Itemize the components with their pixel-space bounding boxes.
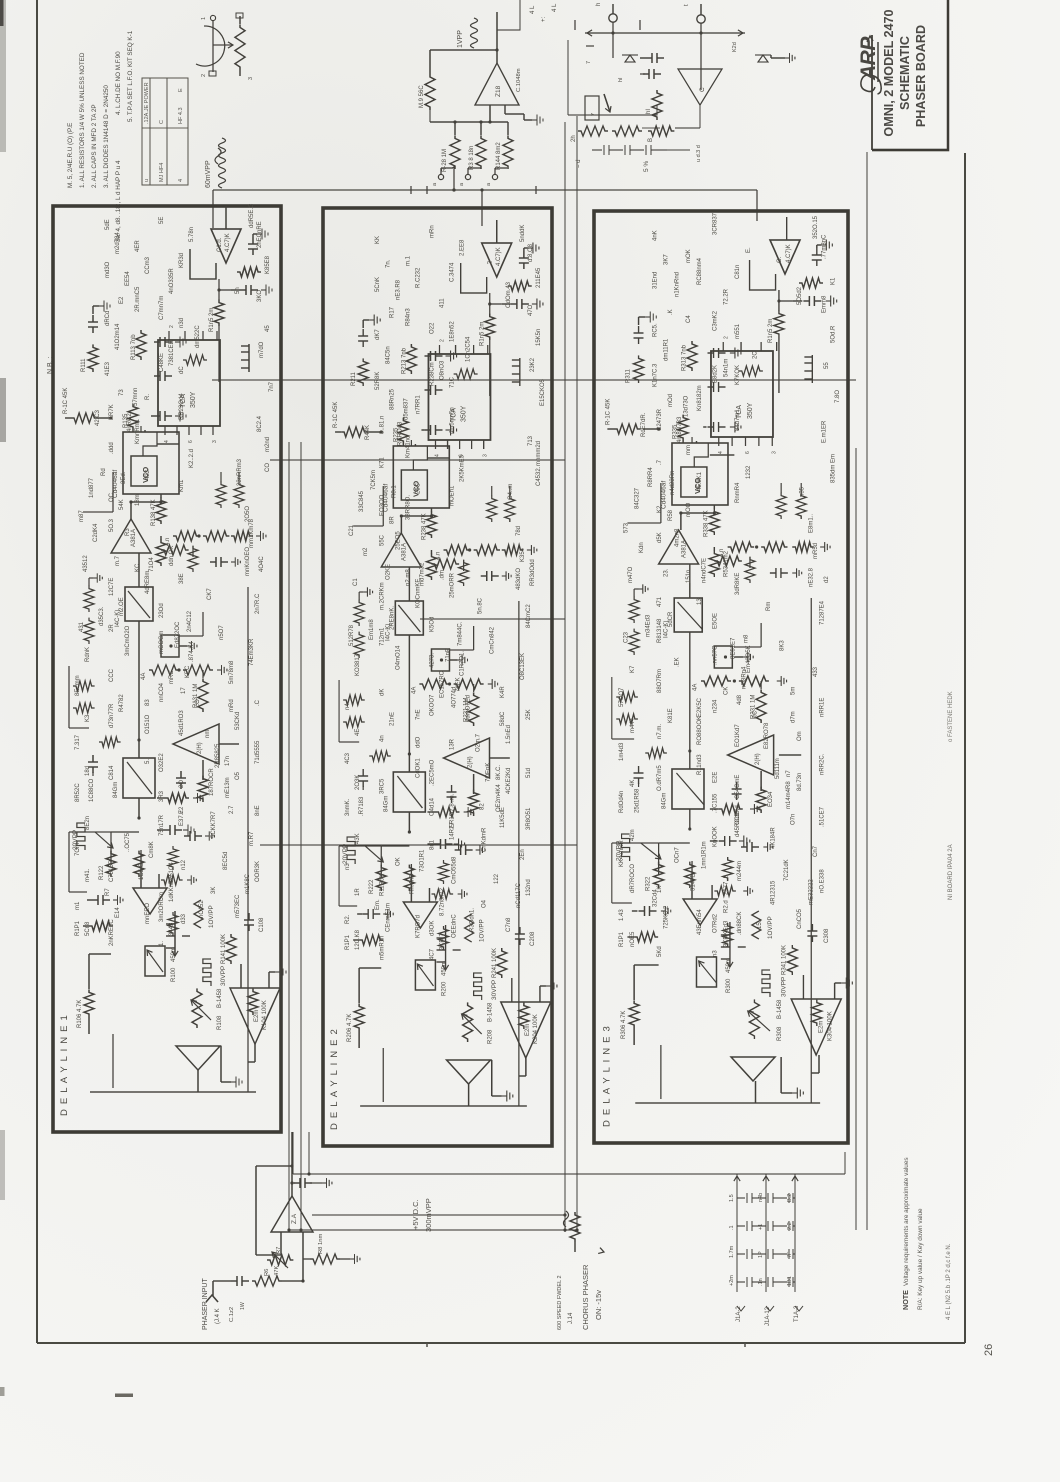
svg-text:75n17R: 75n17R xyxy=(159,814,165,836)
svg-text:42.C3: 42.C3 xyxy=(95,409,101,426)
svg-text:n7: n7 xyxy=(786,770,792,777)
svg-text:n4: n4 xyxy=(345,703,351,710)
svg-text:R1n5 2m: R1n5 2m xyxy=(768,319,774,343)
extra wires net 1 xyxy=(88,954,90,972)
capacitor C312 xyxy=(732,782,742,800)
clock op-amp U102 xyxy=(211,229,241,263)
ground clock 3 xyxy=(826,296,837,307)
svg-text:2n7R.C: 2n7R.C xyxy=(255,593,261,614)
svg-text:8K3: 8K3 xyxy=(779,640,785,651)
svg-text:CCC: CCC xyxy=(109,668,115,682)
cap field e32 xyxy=(770,568,788,578)
op-amp U108 vco buffer xyxy=(111,519,151,553)
clock input wire 2 xyxy=(496,220,498,243)
svg-text:.EK: .EK xyxy=(675,657,681,667)
mixer B stub marks xyxy=(575,20,640,46)
svg-text:OdOm.43: OdOm.43 xyxy=(506,281,512,308)
svg-text:mR5d: mR5d xyxy=(813,543,819,559)
svg-text:RR3dOdd: RR3dOdd xyxy=(530,559,536,586)
resistor field a13 xyxy=(168,846,178,870)
svg-text:Em1m8: Em1m8 xyxy=(369,619,375,640)
svg-text:58dC: 58dC xyxy=(500,711,506,726)
svg-text:4A: 4A xyxy=(141,673,147,680)
svg-text:u d.3 d: u d.3 d xyxy=(696,145,702,162)
svg-text:5CnK: 5CnK xyxy=(375,277,381,292)
resistor R110 xyxy=(71,413,97,423)
resistor R315 clock xyxy=(799,278,823,288)
svg-text:7OEnK: 7OEnK xyxy=(486,763,492,782)
resistor field f11 xyxy=(216,482,226,508)
capacitor C205 xyxy=(362,909,380,919)
svg-text:R113 7nb: R113 7nb xyxy=(131,334,137,360)
svg-text:nnCO4: nnCO4 xyxy=(159,682,165,702)
trimmer R200 xyxy=(415,960,435,990)
svg-text:K7: K7 xyxy=(630,665,636,673)
svg-text:7n7: 7n7 xyxy=(269,381,275,392)
svg-text:Z18: Z18 xyxy=(495,85,502,97)
svg-text:Em: Em xyxy=(831,454,837,463)
vco cell box 3 xyxy=(672,443,728,505)
svg-text:8n1: 8n1 xyxy=(429,839,435,850)
svg-text:R1n5 2m: R1n5 2m xyxy=(209,308,215,332)
ground C214 xyxy=(446,425,457,436)
svg-text:R44K: R44K xyxy=(365,425,371,440)
svg-text:ARP: ARP xyxy=(857,36,880,81)
svg-text:A381A: A381A xyxy=(131,529,137,547)
svg-text:nRR2C.: nRR2C. xyxy=(819,753,825,775)
svg-text:+:: +: xyxy=(541,16,547,22)
svg-text:RC5.: RC5. xyxy=(652,323,658,337)
svg-text:187ROCR: 187ROCR xyxy=(209,768,215,796)
svg-text:CCm3: CCm3 xyxy=(145,256,151,274)
svg-text:71d5555: 71d5555 xyxy=(255,740,261,764)
resistor R122 xyxy=(106,851,116,877)
capacitor chain mixer B xyxy=(592,145,667,155)
waveform square 30VPP 3 xyxy=(762,970,770,997)
clock op-amp U302 xyxy=(770,240,800,274)
ground C310 xyxy=(739,836,750,847)
svg-text:7m844C.: 7m844C. xyxy=(458,621,464,646)
capacitor C116 xyxy=(88,315,98,333)
svg-text:54K: 54K xyxy=(119,499,125,510)
svg-text:n2.m8: n2.m8 xyxy=(405,569,411,586)
svg-text:d33: d33 xyxy=(181,913,187,924)
resistor R134 xyxy=(183,665,213,675)
mixer B wire to bus xyxy=(667,149,690,151)
svg-text:nE32.8: nE32.8 xyxy=(808,567,814,587)
svg-text:C4532.: C4532. xyxy=(536,466,542,486)
svg-text:471: 471 xyxy=(657,596,663,607)
svg-text:5Cn8: 5Cn8 xyxy=(85,921,91,936)
svg-text:C208: C208 xyxy=(530,931,536,946)
capacitor C212 xyxy=(447,785,457,803)
svg-text:2(H): 2(H) xyxy=(468,756,474,768)
wire bus to delay line 2 xyxy=(481,190,483,226)
jack J1 output xyxy=(609,14,617,22)
svg-text:A381A: A381A xyxy=(401,543,407,561)
svg-text:(J.4 K: (J.4 K xyxy=(215,1308,221,1324)
svg-text:C2473R: C2473R xyxy=(657,408,663,431)
svg-text:725KC.2: 725KC.2 xyxy=(664,905,670,929)
svg-text:hI: hI xyxy=(618,77,624,82)
svg-text:R206 4.7K: R206 4.7K xyxy=(347,1014,353,1042)
svg-text:30VPP: 30VPP xyxy=(220,966,227,986)
resistor R311 xyxy=(634,355,644,383)
scan edge mark b xyxy=(0,378,6,442)
svg-text:R.: R. xyxy=(145,394,151,400)
svg-text:15.: 15. xyxy=(757,920,763,929)
svg-text:4K: 4K xyxy=(630,780,636,787)
svg-text:47O: 47O xyxy=(528,304,534,316)
svg-text:R122: R122 xyxy=(99,865,105,880)
svg-text:84C5n: 84C5n xyxy=(385,346,391,364)
svg-text:R84n3: R84n3 xyxy=(405,308,411,326)
svg-text:.12A.JE POWER: .12A.JE POWER xyxy=(144,82,150,124)
feedback resistor M9 56C xyxy=(429,110,431,122)
waveform square 20VPP 1 xyxy=(77,823,85,850)
svg-text:88O7Rm: 88O7Rm xyxy=(657,669,663,693)
bypass cap column 3 xyxy=(737,1221,795,1231)
svg-text:R222: R222 xyxy=(369,879,375,894)
svg-text:.2EC5mO: .2EC5mO xyxy=(429,759,435,786)
svg-text:KmnRm1: KmnRm1 xyxy=(135,418,141,444)
svg-text:5m: 5m xyxy=(791,687,797,695)
svg-text:ON: -15v: ON: -15v xyxy=(594,1290,603,1320)
svg-text:R1n5 2m: R1n5 2m xyxy=(480,322,486,346)
capacitor C112 xyxy=(176,771,186,789)
resistor field f22 xyxy=(505,496,515,522)
svg-text:hI: hI xyxy=(646,109,652,114)
mos switch Q302 xyxy=(721,922,746,967)
svg-text:712m1: 712m1 xyxy=(379,627,385,646)
svg-text:O151O: O151O xyxy=(145,714,151,734)
svg-text:2RE8nK.: 2RE8nK. xyxy=(389,606,395,630)
resistor field c11 xyxy=(84,618,94,644)
svg-text:4nK: 4nK xyxy=(652,230,658,241)
svg-text:= d: = d xyxy=(576,159,582,168)
svg-text:n35: n35 xyxy=(799,486,805,497)
svg-text:5CKK7R7: 5CKK7R7 xyxy=(211,811,217,838)
svg-text:O4..m: O4..m xyxy=(508,484,514,500)
resistor field g22 xyxy=(454,369,478,379)
svg-text:mm: mm xyxy=(686,445,692,455)
svg-text:1mn1R1m: 1mn1R1m xyxy=(701,841,707,869)
svg-text:Z.A: Z.A xyxy=(291,1213,298,1224)
capacitor C110 xyxy=(164,825,182,835)
svg-text:K85E8: K85E8 xyxy=(265,255,271,274)
svg-text:.R7183: .R7183 xyxy=(359,796,365,816)
preamp input resistor R6 xyxy=(252,1276,282,1286)
svg-text:R2.d: R2.d xyxy=(724,900,730,913)
svg-text:23.: 23. xyxy=(664,568,670,577)
svg-text:O8C13EK: O8C13EK xyxy=(520,653,526,680)
resistor R123 xyxy=(134,851,144,877)
border frame xyxy=(37,1342,965,1344)
resistor R141 xyxy=(226,934,236,964)
svg-text:.m.: .m. xyxy=(450,793,456,802)
op-amp U306 lfo xyxy=(791,999,841,1055)
svg-text:1P: 1P xyxy=(758,1251,764,1258)
svg-text:..OC75: ..OC75 xyxy=(125,832,131,852)
svg-text:5d111m: 5d111m xyxy=(775,758,781,779)
svg-text:.ddd: .ddd xyxy=(109,442,115,454)
resistor R108 bias pot xyxy=(192,988,202,1028)
svg-text:3: 3 xyxy=(212,440,218,443)
svg-text:mOO: mOO xyxy=(686,502,692,517)
svg-text:KK4.mRR: KK4.mRR xyxy=(619,840,625,867)
svg-text:45d1RO3: 45d1RO3 xyxy=(179,710,185,736)
resistor field a32 xyxy=(714,886,736,896)
waveform 10VPP 2 xyxy=(465,914,474,942)
svg-text:350Y: 350Y xyxy=(747,402,754,419)
wire inner rail 1b xyxy=(247,587,249,1092)
capacitor C316 xyxy=(634,326,644,344)
svg-text:R311: R311 xyxy=(626,368,632,383)
svg-text:CnKdmR: CnKdmR xyxy=(482,827,488,852)
svg-text:CO: CO xyxy=(265,463,271,472)
resistor R316 xyxy=(774,311,784,337)
svg-text:4: 4 xyxy=(178,179,184,182)
svg-text:m7dO: m7dO xyxy=(259,341,265,358)
ground chain 1 xyxy=(256,531,266,541)
svg-text:n7RR1: n7RR1 xyxy=(415,395,421,414)
svg-text:KO3817: KO3817 xyxy=(355,653,361,676)
wire lfo out 1 xyxy=(254,1044,256,1062)
svg-text:4R12315: 4R12315 xyxy=(770,880,776,905)
svg-text:R308: R308 xyxy=(777,1026,783,1041)
svg-text:O2KE: O2KE xyxy=(385,564,391,580)
resistor field b32 xyxy=(616,692,638,702)
svg-text:n4d23Rn: n4d23Rn xyxy=(670,471,676,495)
svg-text:E.: E. xyxy=(746,247,752,253)
svg-text:CmCn842: CmCn842 xyxy=(490,626,496,654)
svg-text:E15CKO5: E15CKO5 xyxy=(540,378,546,406)
svg-text:Kn8182m: Kn8182m xyxy=(697,385,703,411)
svg-text:15K5n: 15K5n xyxy=(536,329,542,346)
svg-text:m2: m2 xyxy=(363,547,369,556)
svg-text:52R8K: 52R8K xyxy=(375,372,381,390)
resistor R236 xyxy=(431,559,459,569)
svg-text:R211: R211 xyxy=(351,371,357,386)
svg-text:4: 4 xyxy=(164,440,170,443)
capacitor C318 xyxy=(708,348,726,358)
svg-text:1: 1 xyxy=(201,17,207,20)
resistor R310 xyxy=(614,424,640,434)
svg-text:55C: 55C xyxy=(379,534,385,546)
svg-text:NOTE: NOTE xyxy=(901,1290,910,1310)
svg-text:Om: Om xyxy=(797,731,803,741)
resistor R336 xyxy=(714,556,742,566)
svg-text:33RR8O.: 33RR8O. xyxy=(405,495,411,520)
svg-text:KC: KC xyxy=(135,563,141,572)
big delay IC U201 xyxy=(428,354,490,440)
svg-text:3a. 4, d8. .18:, L d HAP: 3a. 4, d8. .18:, L d HAP P u 4 xyxy=(115,160,122,242)
svg-text:600 SPEED FWDEL 2: 600 SPEED FWDEL 2 xyxy=(557,1275,563,1330)
svg-text:mE13m: mE13m xyxy=(225,777,231,798)
svg-text:83: 83 xyxy=(145,699,151,706)
resistor R308 bias pot xyxy=(749,999,759,1039)
svg-text:CK: CK xyxy=(724,687,730,695)
resistor chain R133 xyxy=(149,665,179,675)
wire lfo out 3 xyxy=(818,1055,820,1073)
svg-text:3: 3 xyxy=(483,454,489,457)
svg-text:42m: 42m xyxy=(630,829,636,841)
svg-text:3R3: 3R3 xyxy=(159,790,165,802)
svg-text:26: 26 xyxy=(983,1344,995,1356)
signal bus E xyxy=(855,448,857,1230)
svg-text:R8.1: R8.1 xyxy=(391,485,397,498)
svg-text:D E L A Y L I N E 1: D E L A Y L I N E 1 xyxy=(59,1014,70,1116)
mixer B extra cap xyxy=(643,69,661,79)
resistor field b12 xyxy=(73,681,95,691)
diode D6 and ground xyxy=(755,55,771,62)
svg-text:nCd117C: nCd117C xyxy=(516,882,522,908)
svg-text:1nd877: 1nd877 xyxy=(89,477,95,498)
preamp minus input wire xyxy=(282,1232,303,1281)
svg-text:R111: R111 xyxy=(81,358,87,372)
svg-text:n7.m.: n7.m. xyxy=(657,724,663,739)
svg-text:1R: 1R xyxy=(355,888,361,896)
waveform square 30VPP 2 xyxy=(474,973,482,1000)
capacitor C216 xyxy=(358,329,368,347)
svg-text:8E..mm: 8E..mm xyxy=(75,675,81,696)
svg-text:mOd: mOd xyxy=(668,394,674,407)
filter resistor R113 xyxy=(136,330,146,360)
cap field a14 xyxy=(184,831,202,841)
svg-text:.7: .7 xyxy=(657,459,663,465)
preamp resistor R8 to ground xyxy=(310,1254,340,1264)
svg-text:O4: O4 xyxy=(482,899,488,908)
svg-text:72.2R: 72.2R xyxy=(724,288,730,305)
vco cell box 1 xyxy=(123,432,179,494)
svg-text:C308: C308 xyxy=(824,928,830,943)
extra wires net 2 xyxy=(358,968,360,986)
svg-text:7CK5m: 7CK5m xyxy=(371,470,377,490)
mixer A output to edge xyxy=(497,0,520,30)
svg-text:8R52C: 8R52C xyxy=(75,783,81,802)
svg-text:1OV/PP: 1OV/PP xyxy=(767,916,774,939)
svg-text:n72: n72 xyxy=(440,887,446,898)
svg-text:2(H): 2(H) xyxy=(755,753,761,765)
svg-text:EO: EO xyxy=(195,699,201,708)
svg-text:R141 100K: R141 100K xyxy=(221,934,227,964)
big delay IC U301 xyxy=(711,351,773,437)
svg-text:8..81.n: 8..81.n xyxy=(379,416,385,434)
svg-text:E82RO78: E82RO78 xyxy=(764,722,770,749)
delay line 3 box xyxy=(594,211,848,1143)
svg-text:R138 47K: R138 47K xyxy=(151,499,157,526)
gnd field c2 xyxy=(363,587,372,596)
svg-text:7n.: 7n. xyxy=(385,259,391,268)
svg-text:151n: 151n xyxy=(686,570,692,583)
resistor R324 xyxy=(719,804,743,814)
svg-text:2h: 2h xyxy=(571,135,577,142)
svg-text:88Rn25: 88Rn25 xyxy=(389,388,395,410)
svg-text:EO3OO: EO3OO xyxy=(379,494,385,516)
cap field a24 xyxy=(455,845,473,855)
svg-text:R1P1: R1P1 xyxy=(345,934,351,950)
svg-text:57OO7: 57OO7 xyxy=(619,687,625,707)
resistor R339 xyxy=(709,551,719,577)
delay line 1 box xyxy=(53,206,281,1132)
big delay IC U101 xyxy=(158,340,220,426)
svg-text:55: 55 xyxy=(824,362,830,369)
resistor field a11 xyxy=(168,912,178,936)
svg-text:Rm: Rm xyxy=(766,602,772,611)
svg-text:OMNI, 2 MODEL 2470: OMNI, 2 MODEL 2470 xyxy=(882,9,896,136)
scan sliver top left xyxy=(0,0,4,26)
svg-text:4: 4 xyxy=(718,451,724,454)
svg-text:CHORUS PHASER: CHORUS PHASER xyxy=(581,1264,590,1330)
resistor field f21 xyxy=(487,496,497,522)
svg-text:K1n7C.3: K1n7C.3 xyxy=(652,363,658,387)
cap field d3 xyxy=(634,766,644,784)
svg-text:.1n: .1n xyxy=(758,1278,764,1286)
svg-text:dm11R1: dm11R1 xyxy=(664,338,670,361)
svg-text:PHASER INPUT: PHASER INPUT xyxy=(202,1278,209,1330)
svg-text:51d: 51d xyxy=(526,768,532,778)
svg-text:C814: C814 xyxy=(109,765,115,780)
svg-text:R3: R3 xyxy=(125,528,131,536)
svg-text:25C: 25C xyxy=(415,482,421,494)
svg-text:3KO: 3KO xyxy=(257,290,263,302)
resistor R139 xyxy=(156,540,166,566)
resistor R-28 mixer xyxy=(450,135,460,169)
svg-text:C23: C23 xyxy=(623,631,629,643)
svg-text:31End: 31End xyxy=(652,272,658,289)
trimmer R100 xyxy=(145,946,165,976)
svg-text:4 L: 4 L xyxy=(552,3,558,12)
resistor R38 mixer xyxy=(476,135,486,169)
svg-text:E14: E14 xyxy=(115,907,121,918)
sample hold box 3b xyxy=(674,598,702,632)
svg-text:CmO55d8: CmO55d8 xyxy=(452,856,458,884)
wires right 1 xyxy=(218,326,220,382)
svg-text:R5341m2: R5341m2 xyxy=(724,550,730,577)
cap C121 xyxy=(248,237,258,255)
svg-text:25EO5: 25EO5 xyxy=(395,531,401,550)
svg-text:R8 1nm: R8 1nm xyxy=(318,1234,324,1254)
wire inner rail 3a xyxy=(635,1102,820,1104)
svg-text:1C88CO: 1C88CO xyxy=(89,778,95,802)
capacitor C105 xyxy=(92,895,110,905)
svg-text:d3OK: d3OK xyxy=(429,921,435,936)
crossbar arrow down xyxy=(738,30,743,36)
svg-text:2577..8: 2577..8 xyxy=(724,874,730,895)
svg-text:K4R: K4R xyxy=(500,686,506,698)
svg-text:n3: n3 xyxy=(345,863,351,870)
svg-text:m34Ed3: m34Ed3 xyxy=(646,614,652,637)
pin header comb 1 xyxy=(241,344,249,372)
svg-text:m1: m1 xyxy=(75,901,81,910)
svg-text:25K: 25K xyxy=(526,709,532,720)
svg-text:835dm: 835dm xyxy=(831,465,837,483)
svg-text:.2: .2 xyxy=(488,260,494,266)
ground U206 xyxy=(546,981,557,992)
svg-text:43Enm54: 43Enm54 xyxy=(697,909,703,935)
ground near U304 xyxy=(792,1088,803,1099)
svg-text:C1.d.: C1.d. xyxy=(217,237,223,252)
svg-text:K1: K1 xyxy=(831,277,837,285)
resistor field c22 xyxy=(354,600,364,626)
resistor field b11 xyxy=(73,703,95,713)
svg-text:25mORR: 25mORR xyxy=(450,572,456,598)
svg-text:71C: 71C xyxy=(450,376,456,388)
resistor R241 xyxy=(497,948,507,978)
op-amp U308 vco buffer xyxy=(659,530,699,564)
resistor R2 mixer B xyxy=(652,90,662,120)
svg-text:2nKRE5C: 2nKRE5C xyxy=(109,919,115,946)
